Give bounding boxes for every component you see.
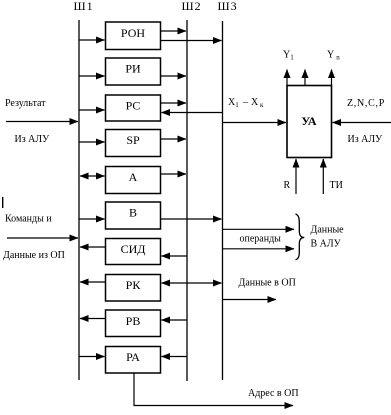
wire R input to УА [295, 159, 297, 194]
wire СИД to Ш1 [80, 246, 106, 248]
wire Результат Из АЛУ to Ш1 [6, 121, 78, 123]
register В [106, 202, 161, 229]
svg-text:РК: РК [126, 278, 142, 292]
wire Ш3 to УА [223, 122, 287, 124]
wire РА to адрес в ОП [134, 374, 293, 406]
register РВ [106, 310, 161, 337]
register РИ [106, 58, 161, 85]
wire УА output Y1 [286, 70, 288, 86]
wire Ш2 to СИД [162, 255, 188, 257]
wire Ш1 to РА [79, 356, 105, 358]
wire ТИ input to УА [322, 159, 324, 194]
wire SP to Ш2 [161, 138, 187, 140]
wire Ш3 данные в ОП [223, 299, 277, 301]
wire РОН to Ш3 [161, 40, 222, 42]
wire РОН to Ш2 [161, 30, 187, 32]
control unit УА [287, 86, 332, 158]
svg-text:Ш2: Ш2 [182, 0, 202, 13]
register РОН [106, 22, 161, 50]
svg-text:Ш1: Ш1 [74, 0, 94, 13]
svg-text:Адрес в ОП: Адрес в ОП [248, 388, 299, 399]
wire Ш2 to РВ [162, 319, 188, 321]
svg-text:РОН: РОН [121, 26, 145, 40]
wire РК to Ш1 [80, 281, 106, 283]
bus Ш3 [222, 21, 224, 380]
wire Ш3 operand upper [223, 228, 295, 230]
svg-text:Y1: Y1 [283, 50, 294, 62]
svg-text:РВ: РВ [126, 314, 141, 328]
svg-text:В: В [129, 206, 137, 220]
register РК [106, 275, 161, 302]
register А [106, 167, 161, 194]
svg-text:Из АЛУ: Из АЛУ [15, 134, 51, 145]
svg-text:В АЛУ: В АЛУ [311, 239, 342, 250]
bus Ш1 [78, 20, 80, 380]
register СИД [106, 239, 161, 265]
register РА [106, 347, 161, 374]
wire Ш1 to РС [79, 109, 105, 111]
svg-text:Данные в ОП: Данные в ОП [239, 278, 296, 289]
wire УА output Yn [331, 70, 333, 86]
wire РС to Ш2 [161, 102, 187, 104]
wire УА output middle [304, 70, 306, 86]
wire Ш1 to РОН [79, 39, 105, 41]
svg-text:Ш3: Ш3 [218, 0, 238, 13]
svg-text:РА: РА [126, 350, 140, 364]
wire Ш1 to РИ [79, 75, 105, 77]
svg-text:Х1–Хк: Х1–Хк [228, 97, 264, 109]
wire Команды Данные to Ш1 [7, 237, 78, 239]
svg-text:Данные: Данные [311, 225, 345, 236]
svg-text:SP: SP [126, 133, 140, 147]
register РС [106, 95, 161, 121]
svg-text:УА: УА [301, 114, 317, 128]
svg-text:Данные из ОП: Данные из ОП [3, 250, 65, 261]
svg-text:R: R [284, 180, 291, 191]
svg-text:РИ: РИ [125, 62, 141, 76]
wire Ш1 to SP [79, 141, 105, 143]
svg-text:А: А [129, 170, 138, 184]
wire Ш3 operand lower [223, 248, 295, 250]
svg-text:операнды: операнды [240, 234, 282, 245]
wire А to Ш2 [161, 173, 187, 175]
wire Ш1 to В [79, 218, 105, 220]
curly brace [296, 214, 305, 260]
svg-text:Yn: Yn [327, 50, 340, 62]
svg-text:Из АЛУ: Из АЛУ [348, 134, 384, 145]
wire В to Ш3 [161, 218, 222, 220]
svg-text:Команды и: Команды и [5, 214, 52, 225]
svg-text:Результат: Результат [5, 98, 46, 109]
text cursor mark [2, 197, 3, 208]
svg-text:Z,N,C,P: Z,N,C,P [347, 98, 385, 109]
wire Ш2 to РА [162, 356, 188, 358]
svg-text:РС: РС [126, 99, 141, 113]
register SP [106, 130, 161, 157]
bus Ш2 [186, 20, 188, 381]
wire Из АЛУ to УА [333, 122, 391, 124]
wire РК to Ш3 bidirectional [162, 282, 222, 284]
wire РВ to Ш1 [80, 318, 106, 320]
svg-text:СИД: СИД [121, 242, 146, 256]
wire Ш1 to А bidirectional [80, 175, 105, 177]
svg-text:ТИ: ТИ [330, 180, 343, 191]
wire Ш3 to РС [162, 112, 223, 114]
wire РИ to Ш2 [161, 75, 187, 77]
